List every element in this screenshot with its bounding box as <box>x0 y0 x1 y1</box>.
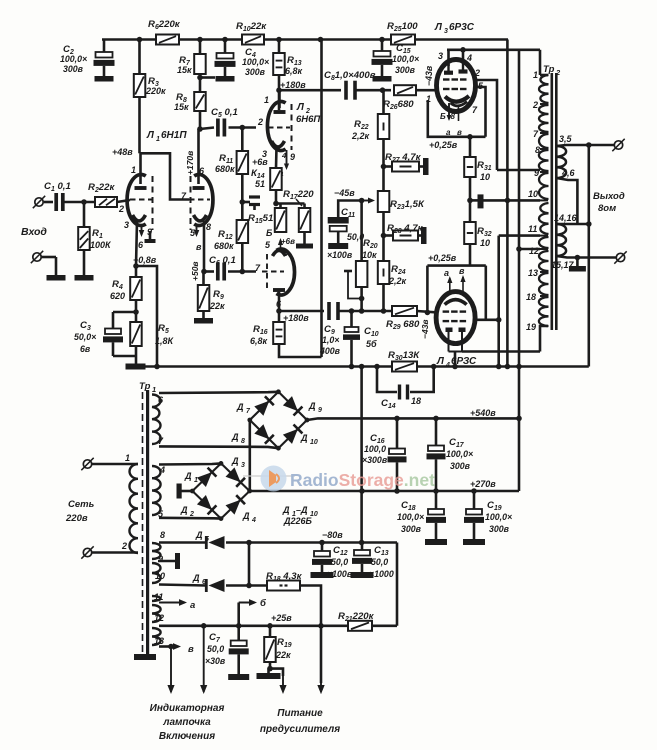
svg-text:18: 18 <box>526 292 536 302</box>
svg-text:12: 12 <box>529 246 539 256</box>
svg-text:100,0×: 100,0× <box>60 54 87 64</box>
svg-text:Д: Д <box>195 530 203 540</box>
svg-text:8: 8 <box>535 145 540 155</box>
svg-text:300в: 300в <box>63 64 84 74</box>
svg-text:100,0×: 100,0× <box>242 57 269 67</box>
svg-text:R25100: R25100 <box>387 21 418 33</box>
svg-text:680к: 680к <box>214 241 234 251</box>
svg-text:6,8к: 6,8к <box>250 336 268 346</box>
svg-text:Д: Д <box>192 573 200 583</box>
svg-text:12: 12 <box>154 613 164 623</box>
svg-text:3: 3 <box>438 51 443 61</box>
svg-text:3: 3 <box>444 28 448 35</box>
svg-text:2: 2 <box>118 204 124 214</box>
svg-text:9: 9 <box>290 152 295 162</box>
svg-text:300в: 300в <box>401 524 422 534</box>
svg-text:6в: 6в <box>80 344 91 354</box>
svg-text:50,0: 50,0 <box>371 557 388 567</box>
svg-text:9: 9 <box>158 554 163 564</box>
svg-text:50,0: 50,0 <box>207 644 224 654</box>
svg-text:Д: Д <box>231 432 239 442</box>
svg-text:R17220: R17220 <box>283 189 314 201</box>
svg-text:6Н6П: 6Н6П <box>296 114 320 125</box>
svg-text:14,16: 14,16 <box>554 213 578 223</box>
svg-text:Б: Б <box>266 228 273 238</box>
svg-text:300в: 300в <box>395 65 416 75</box>
svg-text:2: 2 <box>555 68 561 77</box>
svg-text:2: 2 <box>532 100 538 110</box>
svg-text:1: 1 <box>156 136 160 143</box>
svg-text:2: 2 <box>121 541 127 551</box>
svg-text:RadioStorage.net: RadioStorage.net <box>290 470 435 490</box>
svg-text:100,0×: 100,0× <box>397 512 424 522</box>
svg-text:1,0×: 1,0× <box>322 335 339 345</box>
svg-text:8: 8 <box>160 530 165 540</box>
svg-text:8: 8 <box>451 112 456 121</box>
svg-text:+180в: +180в <box>280 80 306 90</box>
svg-text:R6220к: R6220к <box>148 19 181 31</box>
svg-text:Д: Д <box>242 511 250 521</box>
svg-text:в: в <box>188 644 194 655</box>
svg-text:8: 8 <box>241 438 245 445</box>
svg-text:Тр: Тр <box>139 381 151 392</box>
svg-text:Д: Д <box>231 456 239 466</box>
svg-text:а: а <box>446 128 451 137</box>
svg-text:С5 0,1: С5 0,1 <box>211 107 238 119</box>
svg-text:18: 18 <box>411 396 421 406</box>
svg-text:а: а <box>444 268 449 278</box>
svg-text:15,17: 15,17 <box>551 260 575 270</box>
svg-text:Д: Д <box>236 402 244 412</box>
svg-text:22к: 22к <box>209 301 225 311</box>
svg-text:22к: 22к <box>275 650 291 660</box>
svg-text:10: 10 <box>310 439 318 446</box>
svg-text:1: 1 <box>152 385 156 394</box>
svg-text:11: 11 <box>154 592 163 602</box>
svg-text:Индикаторная: Индикаторная <box>150 703 225 714</box>
svg-text:100,0×: 100,0× <box>446 449 473 459</box>
svg-text:×100в: ×100в <box>327 250 353 260</box>
svg-text:3: 3 <box>124 220 129 230</box>
svg-text:+170в: +170в <box>185 151 195 175</box>
svg-text:10: 10 <box>480 172 490 182</box>
svg-text:300в: 300в <box>489 524 510 534</box>
svg-text:R1022к: R1022к <box>236 21 267 33</box>
svg-text:5б: 5б <box>366 339 377 349</box>
svg-text:×300в: ×300в <box>362 455 388 465</box>
svg-text:R18 4,3к: R18 4,3к <box>266 571 303 583</box>
svg-text:3: 3 <box>241 462 245 469</box>
svg-text:2: 2 <box>474 68 480 78</box>
svg-text:Л: Л <box>146 130 155 141</box>
svg-text:−43в: −43в <box>420 319 430 339</box>
svg-text:1: 1 <box>264 95 269 105</box>
svg-text:15к: 15к <box>177 65 192 75</box>
svg-text:50,0×: 50,0× <box>74 332 96 342</box>
svg-text:Вход: Вход <box>21 226 47 238</box>
svg-text:4: 4 <box>159 465 165 475</box>
svg-text:11: 11 <box>528 224 537 234</box>
svg-text:в: в <box>457 128 462 137</box>
svg-text:Питание: Питание <box>277 708 323 719</box>
svg-text:Д: Д <box>184 471 192 481</box>
svg-text:Сеть: Сеть <box>68 499 95 510</box>
svg-text:−45в: −45в <box>334 188 355 198</box>
svg-text:6,8к: 6,8к <box>285 66 303 76</box>
svg-text:620: 620 <box>110 291 125 301</box>
svg-text:2,2к: 2,2к <box>388 276 407 286</box>
svg-text:Выход: Выход <box>593 191 625 202</box>
svg-text:50,0: 50,0 <box>331 557 348 567</box>
svg-text:9: 9 <box>318 407 322 414</box>
svg-text:+180в: +180в <box>283 313 309 323</box>
svg-text:10к: 10к <box>362 250 377 260</box>
svg-text:Д226Б: Д226Б <box>283 516 313 526</box>
svg-text:R21220к: R21220к <box>338 611 375 623</box>
svg-text:×1000: ×1000 <box>369 569 394 579</box>
svg-text:+540в: +540в <box>470 408 496 418</box>
svg-text:6Н1П: 6Н1П <box>161 130 187 141</box>
svg-text:R231,5К: R231,5К <box>390 199 425 211</box>
svg-text:+25в: +25в <box>271 613 292 623</box>
svg-text:100,0×: 100,0× <box>485 512 512 522</box>
svg-text:–Д: –Д <box>296 505 308 515</box>
svg-text:в: в <box>459 266 465 276</box>
svg-text:4,6: 4,6 <box>561 168 576 178</box>
svg-text:+50в: +50в <box>190 261 200 281</box>
svg-text:5: 5 <box>205 536 209 543</box>
svg-text:51: 51 <box>255 179 265 189</box>
svg-text:400в: 400в <box>319 346 341 356</box>
svg-text:Д: Д <box>282 505 290 515</box>
svg-text:10: 10 <box>480 238 490 248</box>
svg-text:+270в: +270в <box>470 479 496 489</box>
svg-text:1: 1 <box>194 477 198 484</box>
svg-text:R222к: R222к <box>88 182 115 194</box>
svg-text:2: 2 <box>189 511 194 518</box>
svg-text:8ом: 8ом <box>598 203 616 214</box>
svg-text:4: 4 <box>466 53 472 63</box>
svg-text:×100в: ×100в <box>327 569 353 579</box>
svg-text:10: 10 <box>155 571 165 581</box>
svg-text:R27 4,7к: R27 4,7к <box>385 152 422 164</box>
svg-text:+0,8в: +0,8в <box>133 255 157 265</box>
svg-text:4: 4 <box>251 517 256 524</box>
svg-text:+6в: +6в <box>252 157 268 167</box>
svg-text:8: 8 <box>206 222 211 232</box>
svg-text:2,2к: 2,2к <box>351 131 370 141</box>
svg-text:6Р3С: 6Р3С <box>449 22 475 33</box>
svg-text:а: а <box>190 600 195 611</box>
svg-text:300в: 300в <box>245 67 266 77</box>
svg-text:×30в: ×30в <box>205 656 226 666</box>
svg-text:10: 10 <box>528 189 538 199</box>
svg-text:в: в <box>196 242 202 252</box>
svg-text:300в: 300в <box>450 461 471 471</box>
svg-text:2: 2 <box>257 117 263 127</box>
svg-text:+48в: +48в <box>112 147 133 157</box>
svg-text:4: 4 <box>281 151 287 160</box>
svg-text:Д: Д <box>180 505 188 515</box>
svg-text:Включения: Включения <box>159 731 215 742</box>
svg-text:220в: 220в <box>65 513 88 524</box>
svg-text:220к: 220к <box>145 86 166 96</box>
svg-text:680к: 680к <box>215 164 235 174</box>
svg-text:1: 1 <box>533 70 538 80</box>
svg-text:−43в: −43в <box>424 65 434 86</box>
svg-text:19: 19 <box>526 322 536 332</box>
svg-text:100,0×: 100,0× <box>392 54 419 64</box>
svg-text:1: 1 <box>125 453 130 463</box>
svg-text:100,0: 100,0 <box>364 444 386 454</box>
svg-text:R29 680: R29 680 <box>386 319 420 331</box>
svg-text:R28 4,7к: R28 4,7к <box>387 223 424 235</box>
svg-text:Л: Л <box>296 102 305 113</box>
svg-text:С1 0,1: С1 0,1 <box>44 181 71 193</box>
svg-text:−80в: −80в <box>322 530 343 540</box>
svg-text:R3013К: R3013К <box>388 350 420 362</box>
svg-text:+0,25в: +0,25в <box>428 253 457 263</box>
svg-text:С6 0,1: С6 0,1 <box>209 255 236 267</box>
svg-text:6: 6 <box>202 579 206 586</box>
svg-text:Д: Д <box>308 401 316 411</box>
svg-text:Л: Л <box>434 22 443 33</box>
svg-text:Д: Д <box>300 433 308 443</box>
svg-text:+0,25в: +0,25в <box>429 140 458 150</box>
svg-text:Тр: Тр <box>543 64 555 75</box>
svg-text:лампочка: лампочка <box>162 717 211 728</box>
svg-text:1: 1 <box>131 165 136 175</box>
svg-text:13: 13 <box>154 636 164 646</box>
svg-text:+6в: +6в <box>281 237 295 246</box>
svg-text:100К: 100К <box>90 240 112 250</box>
svg-text:Б: Б <box>440 112 446 121</box>
svg-text:15к: 15к <box>174 102 189 112</box>
svg-text:9: 9 <box>534 168 539 178</box>
svg-text:3,5: 3,5 <box>559 134 573 144</box>
svg-text:13: 13 <box>528 268 538 278</box>
svg-text:предусилителя: предусилителя <box>260 724 340 735</box>
svg-text:R26680: R26680 <box>383 99 414 111</box>
